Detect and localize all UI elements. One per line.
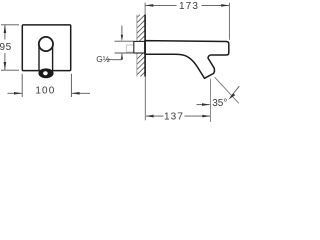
svg-text:95: 95 [0, 42, 12, 53]
svg-text:173: 173 [179, 1, 199, 12]
svg-text:G½: G½ [96, 54, 110, 64]
svg-text:100: 100 [35, 86, 55, 97]
svg-text:137: 137 [164, 112, 184, 122]
svg-text:35°: 35° [212, 98, 227, 109]
